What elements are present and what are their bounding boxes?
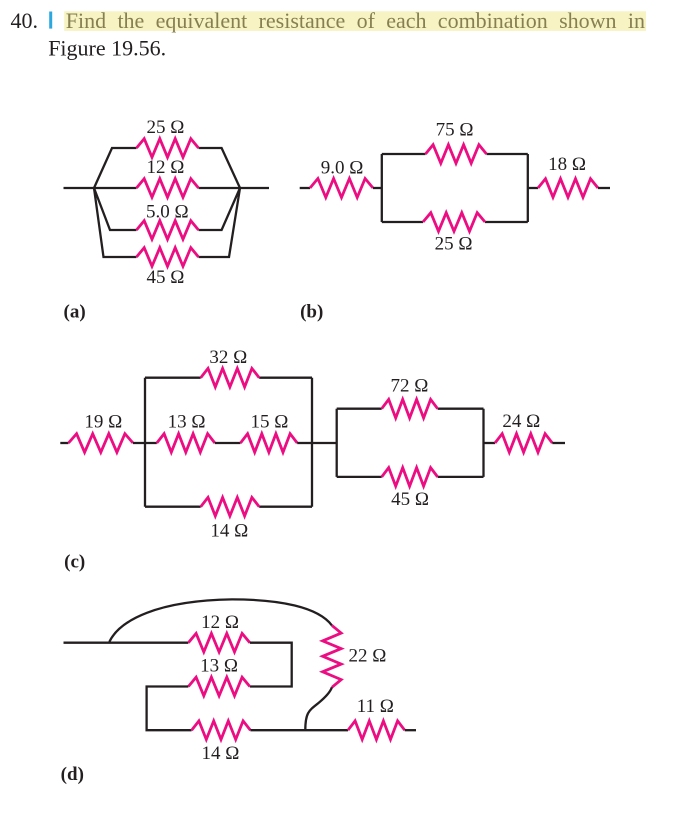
svg-text:Figure 19.56.: Figure 19.56. (48, 36, 166, 61)
svg-text:40.: 40. (11, 8, 39, 33)
svg-text:45 Ω: 45 Ω (146, 267, 184, 288)
svg-text:24 Ω: 24 Ω (502, 411, 540, 432)
svg-text:14 Ω: 14 Ω (210, 521, 248, 542)
svg-text:18 Ω: 18 Ω (548, 154, 586, 175)
svg-text:15 Ω: 15 Ω (250, 411, 288, 432)
svg-text:45 Ω: 45 Ω (391, 489, 429, 510)
svg-text:9.0 Ω: 9.0 Ω (321, 157, 364, 178)
svg-text:22 Ω: 22 Ω (349, 646, 387, 667)
svg-text:32 Ω: 32 Ω (209, 347, 247, 368)
svg-text:13 Ω: 13 Ω (200, 656, 238, 677)
svg-text:19 Ω: 19 Ω (84, 411, 122, 432)
svg-text:25 Ω: 25 Ω (146, 117, 184, 138)
svg-text:(d): (d) (61, 764, 84, 785)
svg-text:14 Ω: 14 Ω (201, 743, 239, 764)
svg-text:11 Ω: 11 Ω (357, 696, 394, 717)
svg-text:13 Ω: 13 Ω (168, 411, 206, 432)
svg-text:75 Ω: 75 Ω (436, 120, 474, 141)
svg-text:12 Ω: 12 Ω (201, 612, 239, 633)
svg-text:(a): (a) (64, 302, 86, 323)
svg-text:(b): (b) (300, 302, 323, 323)
svg-text:25 Ω: 25 Ω (435, 233, 473, 254)
svg-text:12 Ω: 12 Ω (146, 157, 184, 178)
svg-text:5.0 Ω: 5.0 Ω (146, 201, 189, 222)
svg-text:Find the equivalent resistance: Find the equivalent resistance of each c… (66, 8, 645, 33)
svg-text:72 Ω: 72 Ω (390, 375, 428, 396)
svg-text:(c): (c) (64, 552, 85, 573)
